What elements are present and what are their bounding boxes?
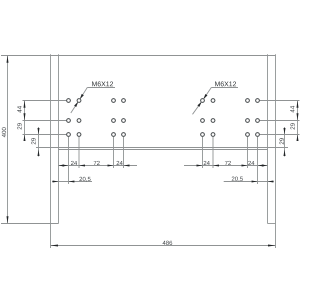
dimension 486 line [51,245,276,247]
label M6X12 left text [92,81,113,86]
hole L r2c4 [121,118,126,123]
hole R r3c2 [210,132,215,137]
label M6X12 left leader arrow lower [74,102,78,107]
dimension 400 text [2,127,6,137]
hole R r2c2 [210,118,215,123]
column extension line c4 [123,137,125,168]
dimension 486 text [163,241,173,245]
label M6X12 left leader upper segment [80,88,88,100]
chain right arrow at c8 [258,165,264,167]
column extension line c2 [78,137,80,168]
hole R r1c3 [245,98,250,103]
dimension 20,5 left text [79,177,90,182]
hole L r3c3 [111,132,116,137]
hole R r1c1 [200,98,205,103]
hole R r2c4 [255,118,260,123]
hole R r2c3 [245,118,250,123]
left leg bottom cap with 400 extension line [1,223,59,225]
chain left arrow at leg [58,165,64,167]
chain right arrow at leg [262,165,268,167]
dimension 44 left bottom arrow [24,113,26,120]
left leg outer line [50,54,52,223]
dimension 486 left arrow [51,245,59,247]
dimension 20,5 right arrow at c8 [252,181,258,183]
dimension 20,5 left arrow at leg [53,181,59,183]
dimension 44 left line [24,101,26,142]
hole L r3c4 [121,132,126,137]
column extension line c5 [202,137,204,168]
dimension 29 right lower text [279,138,283,144]
chain right text 24b [248,161,254,165]
dimension 29 right upper arrow below row3 [297,135,299,142]
hole row 2 extension line left [23,120,67,122]
hole L r3c1 [66,132,71,137]
dimension 44 right line [297,101,299,142]
left leg inner line [58,54,60,223]
hole L r1c2 [76,98,81,103]
dimension 20,5 right line [224,181,274,183]
chain left arrow at c3 [108,165,114,167]
label M6X12 right leader upper segment [203,88,211,100]
dimension 44 right text [290,106,294,113]
chain right arrow at c6 [213,165,219,167]
dimension 400 bottom arrow [7,216,9,223]
right leg outer line [275,54,277,223]
dimension 20,5 right arrow at leg [268,181,274,183]
dimension 400 top arrow [7,56,9,63]
dimension 29 right lower top arrow [284,128,286,135]
dimension 29 left lower text [31,138,35,144]
label M6X12 right leader arrow lower [197,102,201,107]
right leg inner line [267,54,269,223]
column extension line c7 [247,137,249,168]
hole R r3c3 [245,132,250,137]
dimension 29 left lower bottom arrow [38,150,40,157]
dimension 29 left upper text [17,123,21,129]
dimension 20,5 left arrow at c1 [69,181,75,183]
dimension 20,5 right text [232,177,243,182]
dimension 44 left text [17,106,21,113]
hole L r2c3 [111,118,116,123]
label M6X12 right text [215,81,236,86]
label M6X12 left leader lower segment [71,102,78,113]
hole row 2 extension line right [259,120,299,122]
label M6X12 left underline [87,87,115,89]
chain left text 72 [94,161,100,165]
dimension 29 right lower line [284,127,286,157]
label M6X12 right leader arrow upper [203,94,207,99]
hole L r1c1 [66,98,71,103]
chain left arrow at c4 [124,165,130,167]
chain left arrow at c2 [79,165,85,167]
hole row 3 extension line left [23,134,67,136]
dimension 29 right upper text [290,123,294,129]
column extension line c3 [113,137,115,168]
dimension chain 24-72-24 left line [58,165,137,167]
hole R r1c2 [210,98,215,103]
hole L r2c2 [76,118,81,123]
dimension 29 right lower bottom arrow [284,150,286,157]
hole R r2c1 [200,118,205,123]
dimension 29 left lower top arrow [38,128,40,135]
label M6X12 right leader lower segment [193,102,202,115]
label M6X12 right underline [211,87,238,89]
plate bottom edge with side extension stubs [36,147,288,149]
dimension 29 left lower line [38,127,40,157]
right leg bottom cap [268,223,276,225]
plate top edge with 400 extension line [1,55,276,57]
dimension 20,5 left line [52,181,92,183]
hole row 3 extension line right [259,134,299,136]
column extension line c1 [68,137,70,184]
486 extension line right [275,224,277,249]
dimension 44 right top arrow [297,101,299,108]
dimension 44 right bottom arrow [297,113,299,120]
hole L r1c4 [121,98,126,103]
dimension 44 left top arrow [24,101,26,108]
hole row 1 extension line right [259,100,299,102]
dimension 486 right arrow [268,245,276,247]
hole L r1c3 [111,98,116,103]
hole row 1 extension line left [23,100,67,102]
chain left arrow at c1 [63,165,69,167]
label M6X12 left leader arrow upper [80,94,84,99]
chain right text 72 [225,161,231,165]
chain right arrow at c5 [197,165,203,167]
plate inner bottom line [59,149,268,151]
hole R r1c4 [255,98,260,103]
hole R r3c4 [255,132,260,137]
dimension chain 24-72-24 right line [184,165,268,167]
chain left text 24 [71,161,77,165]
hole R r3c1 [200,132,205,137]
chain right arrow at c7 [242,165,248,167]
hole L r3c2 [76,132,81,137]
dimension 29 left upper arrow below row3 [24,135,26,142]
column extension line c8 [257,137,259,184]
chain right text 24 [204,161,210,165]
dimension 400 line [7,56,9,224]
hole L r2c1 [66,118,71,123]
column extension line c6 [212,137,214,168]
486 extension line left [50,224,52,249]
chain left text 24b [117,161,123,165]
